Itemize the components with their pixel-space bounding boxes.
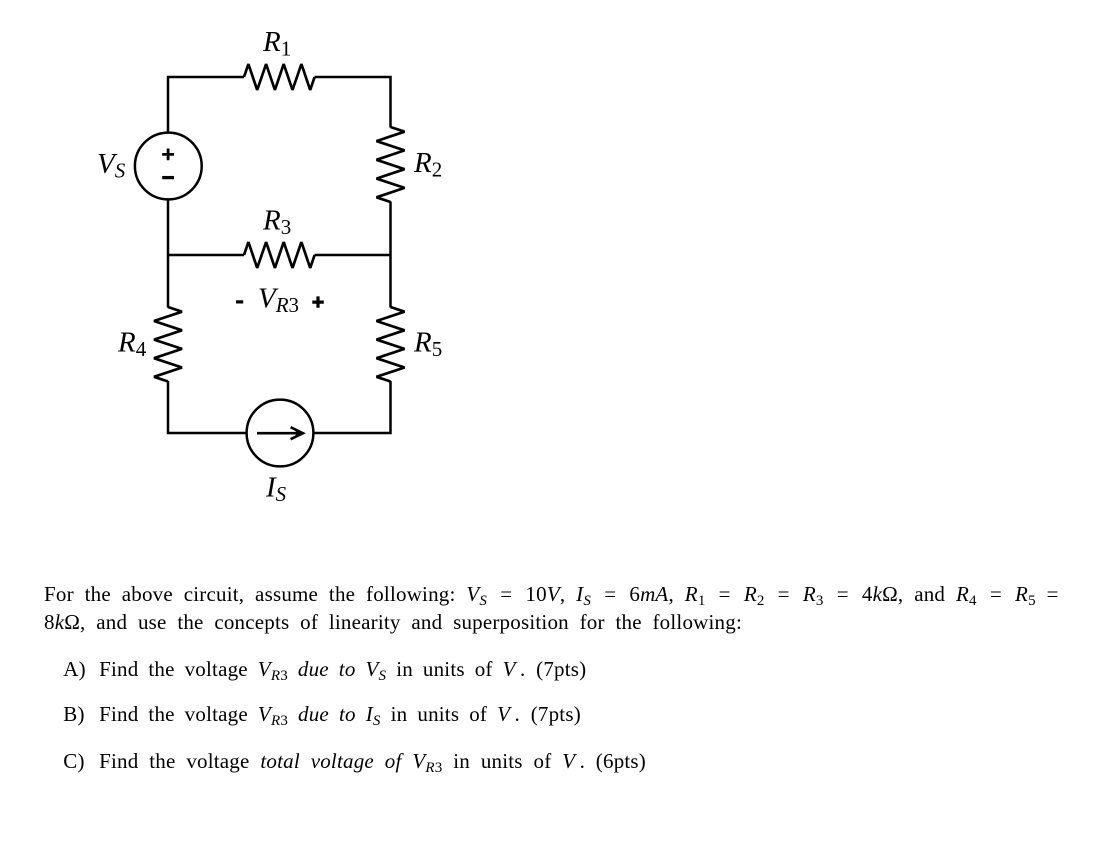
resistor R1 xyxy=(244,64,315,90)
wire bottom-left corner xyxy=(168,381,247,433)
svg-text:VR3: VR3 xyxy=(258,283,299,318)
current source arrow xyxy=(257,427,303,439)
label IS xyxy=(265,471,287,506)
paragraph line 2 xyxy=(44,612,742,633)
wire right middle segment xyxy=(389,202,392,308)
label VS xyxy=(97,148,126,183)
wire middle left xyxy=(168,254,244,257)
svg-text:R4: R4 xyxy=(117,327,147,362)
voltage label minus sign xyxy=(236,300,243,303)
current source IS circle xyxy=(247,400,314,467)
item A xyxy=(63,659,586,680)
svg-text:R2: R2 xyxy=(413,147,442,182)
label R3 xyxy=(262,205,291,240)
resistor R3 xyxy=(244,242,315,268)
paragraph line 1 xyxy=(44,584,1059,605)
VS minus sign xyxy=(162,176,174,179)
wire middle right xyxy=(315,254,391,257)
wire bottom-right corner xyxy=(314,381,391,433)
svg-text:R1: R1 xyxy=(262,26,291,61)
label R4 xyxy=(117,327,147,362)
voltage label VR3 xyxy=(258,283,299,318)
resistor R2 xyxy=(377,127,405,202)
label R1 xyxy=(262,26,291,61)
label R5 xyxy=(413,327,442,362)
VS plus sign xyxy=(162,149,174,161)
item C xyxy=(63,751,646,772)
svg-text:VS: VS xyxy=(97,148,126,183)
svg-text:R5: R5 xyxy=(413,327,442,362)
label R2 xyxy=(413,147,442,182)
wire left middle segment xyxy=(167,200,170,308)
resistor R4 xyxy=(154,307,182,382)
voltage source VS circle xyxy=(135,133,202,200)
resistor R5 xyxy=(377,307,405,382)
svg-text:R3: R3 xyxy=(262,205,291,240)
wire top-right corner xyxy=(315,77,391,128)
voltage label plus sign xyxy=(312,296,324,307)
item B xyxy=(63,704,581,725)
wire top-left corner xyxy=(168,77,244,133)
svg-text:IS: IS xyxy=(265,471,287,506)
